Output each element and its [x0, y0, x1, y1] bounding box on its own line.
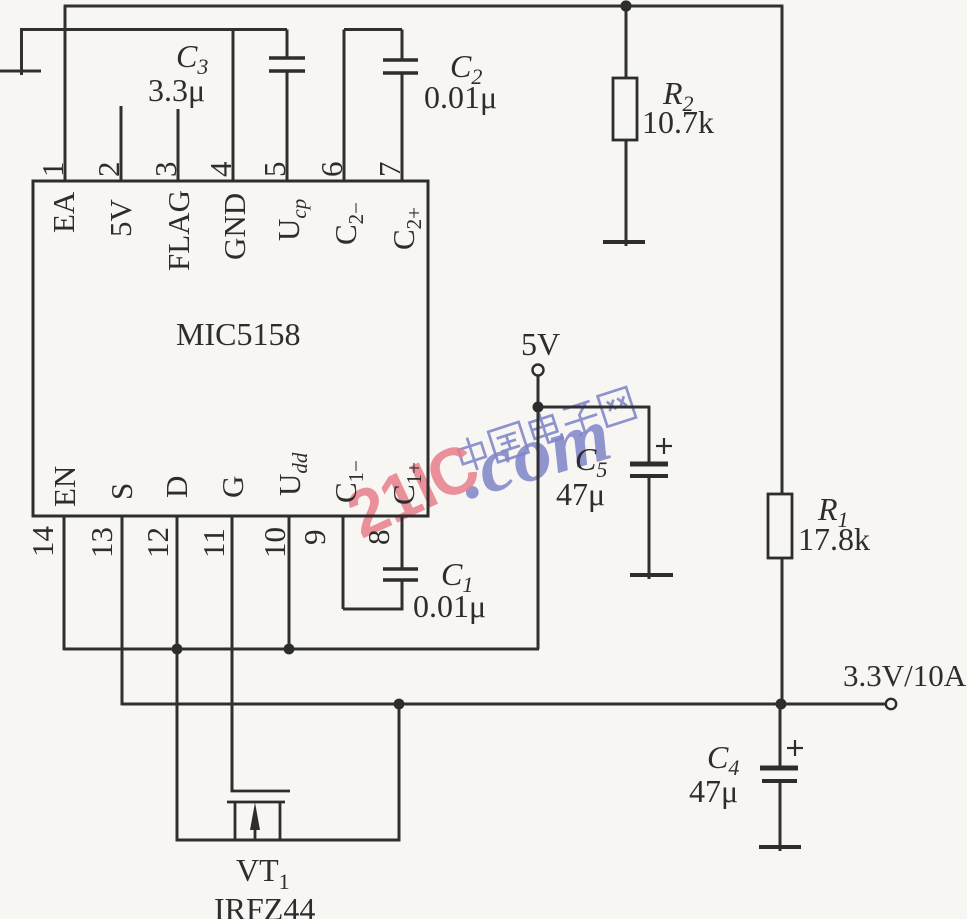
svg-text:3.3V/10A: 3.3V/10A	[843, 658, 967, 693]
junction dot 5V node	[533, 402, 544, 413]
wire pin5 lower	[286, 71, 289, 181]
wire R2 top lead	[625, 6, 628, 78]
plus sign C5	[656, 438, 672, 454]
wire pin2 stub	[120, 106, 123, 181]
wire pin1 vertical	[64, 6, 67, 181]
svg-text:5: 5	[257, 162, 292, 178]
wire C5 bottom lead	[648, 477, 651, 579]
capacitor C3 plates	[269, 56, 305, 59]
svg-text:0.01μ: 0.01μ	[413, 588, 486, 624]
svg-text:D: D	[159, 476, 194, 498]
svg-text:7: 7	[372, 162, 407, 178]
svg-text:8: 8	[361, 530, 396, 546]
capacitor C4 plates	[760, 766, 798, 771]
terminal output	[886, 699, 896, 709]
wire R2 bottom lead	[625, 140, 628, 246]
wire VT1 source vertical	[398, 704, 401, 841]
wire VT1 bottom	[176, 839, 401, 842]
svg-text:3.3μ: 3.3μ	[148, 72, 205, 108]
svg-text:EN: EN	[47, 466, 82, 507]
wire pin7 upper	[401, 30, 404, 61]
svg-text:9: 9	[297, 530, 332, 546]
watermark 21IC.com 中国电子网	[336, 385, 636, 552]
junction dot VT1 source	[394, 699, 405, 710]
wire pin8 lower	[401, 580, 404, 610]
terminal 5V	[533, 365, 544, 376]
wire pin6-pin7 top connector	[344, 28, 402, 31]
gate bar	[231, 790, 290, 793]
wire pin10 vertical	[288, 516, 291, 649]
wire 5V vertical	[537, 376, 540, 649]
transistor VT1 MOSFET	[227, 786, 290, 840]
svg-text:13: 13	[84, 527, 119, 558]
wire pin4 vertical	[232, 30, 235, 182]
capacitor C5 plates	[630, 462, 668, 467]
arrow head	[250, 803, 260, 831]
wire top rail	[64, 5, 784, 8]
wire pin13 vertical	[121, 516, 124, 705]
wire pin3 stub	[177, 109, 180, 181]
svg-text:S: S	[104, 483, 139, 500]
svg-text:0.01μ: 0.01μ	[424, 79, 497, 115]
svg-text:47μ: 47μ	[556, 476, 605, 512]
svg-text:10.7k: 10.7k	[642, 104, 714, 140]
resistor R1 body	[768, 494, 792, 558]
svg-text:MIC5158: MIC5158	[176, 316, 300, 352]
svg-text:FLAG: FLAG	[161, 190, 196, 271]
wire C4 bottom lead	[779, 781, 782, 851]
wire pin8 upper	[401, 516, 404, 569]
wire EN rail	[64, 648, 539, 651]
wire C5 top lead	[648, 407, 651, 464]
svg-text:IRFZ44: IRFZ44	[214, 891, 315, 919]
svg-text:47μ: 47μ	[689, 773, 738, 809]
wire pin14 vertical	[63, 516, 66, 650]
channel bar	[227, 801, 285, 804]
svg-text:14: 14	[25, 526, 60, 558]
svg-text:17.8k: 17.8k	[798, 521, 870, 557]
junction dot output node	[776, 699, 787, 710]
wire pin12 vertical to VT1	[176, 516, 179, 841]
watermark chinese chars drawn as strokes	[455, 385, 636, 474]
wire pin5 upper	[286, 30, 289, 59]
svg-text:GND: GND	[217, 193, 252, 260]
svg-text:EA: EA	[46, 191, 81, 233]
ground C5	[630, 573, 673, 577]
wire C1 bottom connector	[343, 608, 402, 611]
junction dot pin12 EN rail	[172, 644, 183, 655]
svg-text:5V: 5V	[521, 326, 560, 362]
wire input stub vertical	[20, 30, 23, 76]
wire second rail	[20, 28, 287, 31]
wire pin6 vertical	[343, 30, 346, 182]
wire pin7 lower	[401, 73, 404, 181]
right leg	[279, 802, 282, 840]
svg-text:6: 6	[314, 162, 349, 178]
left leg	[234, 802, 237, 840]
svg-text:5V: 5V	[103, 199, 138, 238]
svg-text:4: 4	[203, 161, 238, 177]
svg-text:10: 10	[257, 527, 292, 558]
resistor R2 body	[613, 78, 637, 140]
svg-text:3: 3	[148, 162, 183, 178]
junction dot pin10 EN rail	[284, 644, 295, 655]
svg-text:G: G	[215, 476, 250, 498]
svg-text:11: 11	[196, 528, 231, 558]
wire input stub horizontal	[0, 70, 41, 73]
wire right rail down to R1	[781, 6, 784, 495]
wire C4 top lead	[779, 704, 782, 768]
wire pin9 vertical	[342, 516, 345, 609]
wire pin11 vertical to gate	[231, 516, 234, 792]
wire 5V to C5 horizontal	[538, 406, 650, 409]
junction dot top R2	[620, 0, 631, 11]
ground R2	[603, 240, 645, 244]
svg-text:2: 2	[91, 162, 126, 178]
ground C4	[759, 845, 801, 849]
svg-text:1: 1	[35, 162, 70, 178]
plus sign C4	[787, 740, 803, 756]
capacitor C2 plates	[383, 58, 418, 61]
svg-text:12: 12	[140, 527, 175, 558]
IC MIC5158 body	[33, 181, 428, 516]
arrow shaft	[254, 820, 257, 840]
capacitor C1 plates	[383, 567, 418, 570]
wire R1 bottom to output node	[781, 557, 784, 704]
wire output rail	[122, 703, 886, 706]
